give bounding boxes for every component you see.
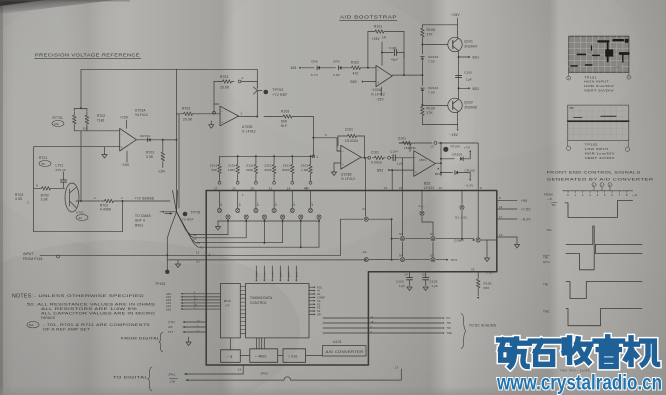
svg-text:17: 17 <box>499 215 503 219</box>
svg-text:.1µF: .1µF <box>431 284 438 288</box>
ground comp side <box>486 240 488 258</box>
svg-text:SR: SR <box>317 314 321 317</box>
svg-text:C105: C105 <box>464 71 472 75</box>
svg-text:B53: B53 <box>377 169 383 173</box>
output BS2 <box>459 87 468 89</box>
svg-text:29: 29 <box>232 186 236 190</box>
svg-text:TR: TR <box>551 203 556 207</box>
svg-text:JPK1: JPK1 <box>168 372 176 376</box>
svg-text:1: 1 <box>242 193 244 197</box>
feedback Z101 15.0334 <box>337 136 339 146</box>
svg-text:14: 14 <box>287 186 291 190</box>
capacitor C105 <box>456 75 462 77</box>
wire +7V sense <box>117 200 170 202</box>
svg-text:R702: R702 <box>97 114 105 118</box>
svg-text:7.0V: 7.0V <box>428 91 435 95</box>
svg-text:GENERATED BY A/D CONVERTER: GENERATED BY A/D CONVERTER <box>547 178 654 182</box>
svg-text:MA: MA <box>55 122 60 126</box>
svg-text:410: 410 <box>353 72 359 76</box>
svg-text:COMP: COMP <box>454 238 464 242</box>
scope photo TP102 frame <box>568 105 629 140</box>
svg-text:R108: R108 <box>427 28 435 32</box>
resistor R108 27K <box>421 26 425 39</box>
svg-text:R702: R702 <box>220 75 228 79</box>
wire POL row <box>370 259 400 261</box>
wire Q101 emitter chain <box>458 52 460 99</box>
svg-text:2A: 2A <box>193 233 197 237</box>
svg-text:5: 5 <box>499 196 501 200</box>
svg-text:—P: —P <box>547 197 552 201</box>
scope photo TP101 graticule <box>574 36 576 72</box>
output BS1 <box>459 56 468 58</box>
svg-text:0.001k: 0.001k <box>371 161 382 165</box>
svg-text:4.445K: 4.445K <box>100 208 112 212</box>
power -15V Q102 <box>422 124 457 126</box>
testpoint TP701 <box>183 212 188 217</box>
svg-text:R101: R101 <box>374 25 382 29</box>
svg-text:CR104: CR104 <box>428 86 438 90</box>
svg-text:TFT: TFT <box>168 330 174 334</box>
svg-text:INPUT: INPUT <box>23 252 34 256</box>
svg-text:+7V SENSE: +7V SENSE <box>135 197 155 201</box>
svg-text:- UNLESS OTHERWISE SPECIFIED: - UNLESS OTHERWISE SPECIFIED <box>34 294 144 298</box>
svg-text:24: 24 <box>405 273 409 277</box>
svg-text:+7.5V: +7.5V <box>521 208 531 212</box>
svg-text:CR701: CR701 <box>140 134 150 138</box>
svg-text:A00: A00 <box>166 307 172 311</box>
svg-text:C104: C104 <box>389 46 397 50</box>
resistor R106 560 <box>477 272 479 277</box>
svg-text:1.0M: 1.0M <box>301 168 309 172</box>
scope TP102 markers <box>567 140 569 146</box>
svg-text:÷ 216: ÷ 216 <box>288 355 297 359</box>
svg-text:.1µF: .1µF <box>398 284 405 288</box>
wire opamp inverting input <box>73 127 75 131</box>
svg-text:½LF412: ½LF412 <box>135 113 148 117</box>
svg-text:20.0K: 20.0K <box>220 86 230 90</box>
ground U103 <box>333 163 335 172</box>
svg-text:17B: 17B <box>170 380 176 384</box>
svg-text:BIT: BIT <box>258 202 260 206</box>
svg-text:2B: 2B <box>193 236 197 240</box>
svg-text:+15V: +15V <box>372 37 381 41</box>
svg-text:3.3K: 3.3K <box>146 155 154 159</box>
svg-text:+7V: +7V <box>464 146 470 150</box>
svg-text:NOTES:: NOTES: <box>12 293 33 299</box>
svg-text:.1µF: .1µF <box>396 162 403 166</box>
svg-text:½ LF412: ½ LF412 <box>341 177 355 181</box>
resistor R702 3.3K vertical <box>162 140 164 150</box>
svg-text:HOn: HOn <box>543 260 550 264</box>
svg-text:ALL CAPACITOR VALUES ARE I: ALL CAPACITOR VALUES ARE IN MICRO <box>41 312 155 316</box>
diode CR103 <box>421 45 423 55</box>
svg-text:HOR 2ms/DIV: HOR 2ms/DIV <box>584 84 614 88</box>
bit lines into timing box <box>255 266 257 280</box>
svg-text:456: 456 <box>291 66 297 70</box>
svg-text:C104: C104 <box>390 150 398 154</box>
svg-text:C103: C103 <box>430 280 438 284</box>
feedback R101 1K <box>367 32 369 69</box>
svg-text:TP101: TP101 <box>584 75 597 79</box>
svg-text:3.3K: 3.3K <box>41 198 49 202</box>
svg-text:2: 2 <box>241 112 243 116</box>
svg-text:S4: S4 <box>399 254 403 258</box>
diode CR104 <box>421 75 423 85</box>
diode CR106 <box>441 172 453 174</box>
svg-text:A2: A2 <box>363 250 367 254</box>
svg-text:21: 21 <box>384 186 388 190</box>
svg-text:BS1: BS1 <box>473 56 480 60</box>
svg-text:400K: 400K <box>264 168 272 172</box>
svg-text:B54: B54 <box>435 172 441 176</box>
svg-text:7.0V: 7.0V <box>428 60 435 64</box>
svg-text:A BIT: A BIT <box>287 270 290 277</box>
svg-text:1µF: 1µF <box>466 78 472 82</box>
svg-text:10: 10 <box>499 233 503 237</box>
svg-text:TP103: TP103 <box>155 282 165 286</box>
svg-text:2N3904: 2N3904 <box>464 45 477 49</box>
watermark logo <box>499 339 530 367</box>
svg-text:VERT 5V/DIV: VERT 5V/DIV <box>584 89 614 93</box>
svg-text:CR105: CR105 <box>452 152 462 156</box>
svg-text:½ LF412: ½ LF412 <box>371 93 385 97</box>
svg-text:Q102: Q102 <box>464 100 473 104</box>
svg-text:30: 30 <box>250 186 254 190</box>
wire IN from ladder <box>365 158 367 216</box>
svg-text:Z101: Z101 <box>371 151 379 155</box>
svg-text:10: 10 <box>430 145 434 149</box>
svg-text:B52: B52 <box>424 182 431 186</box>
notes matched set <box>27 322 39 328</box>
svg-text:Z101: Z101 <box>228 164 236 168</box>
wire R105 to ladder pin <box>295 116 314 118</box>
svg-text:TRE: TRE <box>447 332 453 335</box>
svg-text:CR106: CR106 <box>465 169 475 173</box>
svg-text:Z101: Z101 <box>265 164 273 168</box>
svg-text:−15V: −15V <box>376 97 385 101</box>
svg-text:−15V: −15V <box>449 133 458 137</box>
svg-text:BIT: BIT <box>221 202 223 206</box>
node output U702A <box>162 139 164 141</box>
wire pin21 column <box>391 170 393 190</box>
svg-text:7L: 7L <box>200 246 204 250</box>
svg-text:TP702: TP702 <box>272 88 283 92</box>
transfer gates array <box>219 191 221 209</box>
svg-text:Z101: Z101 <box>301 164 309 168</box>
svg-text:2: 2 <box>27 201 29 205</box>
resistor Z101 0.001k <box>368 156 371 159</box>
svg-text:CR103: CR103 <box>428 55 438 59</box>
svg-text:U702A: U702A <box>135 109 146 113</box>
svg-text:BIT: BIT <box>312 202 314 206</box>
timing control outputs <box>309 286 314 288</box>
wire U702A out to bus <box>163 139 177 141</box>
resistor RT701 <box>73 112 77 127</box>
svg-text:BUS: BUS <box>224 299 231 303</box>
svg-text:(1): (1) <box>196 260 200 264</box>
wire noninv input U702A <box>34 146 120 148</box>
svg-text:31: 31 <box>269 186 273 190</box>
svg-text:POL: POL <box>451 258 458 262</box>
svg-text:−: − <box>377 69 379 73</box>
svg-text:A/D CONVERTER: A/D CONVERTER <box>326 350 365 354</box>
ground lower left <box>188 337 190 342</box>
resistor ladder Z101 bus <box>220 155 314 157</box>
svg-text:Q101: Q101 <box>464 40 473 44</box>
svg-text:+5V: +5V <box>521 199 528 203</box>
svg-text:TRI: TRI <box>543 255 548 259</box>
scope photo TP102 trace <box>568 108 629 121</box>
wire A2 line <box>166 255 168 260</box>
svg-text:+: + <box>415 170 417 174</box>
svg-text:−15V: −15V <box>157 170 166 174</box>
svg-text:+: + <box>342 163 344 167</box>
svg-text:TRI: TRI <box>447 322 452 325</box>
wire COMP column <box>477 143 479 238</box>
scope photo TP102 graticule <box>573 105 575 140</box>
svg-text:+: + <box>377 81 379 85</box>
svg-text:16: 16 <box>499 205 503 209</box>
svg-text:BIT: BIT <box>294 202 296 206</box>
wire U102A output <box>392 74 422 76</box>
svg-text:TRI: TRI <box>543 282 548 286</box>
svg-text:50K: 50K <box>212 168 218 172</box>
diode CR105 <box>441 158 454 160</box>
svg-text:V BIT: V BIT <box>272 270 274 277</box>
svg-text:JPK2: JPK2 <box>260 372 268 376</box>
svg-text:20.0K: 20.0K <box>183 118 193 122</box>
svg-text:PRECISION VOLTAGE REFERENCE: PRECISION VOLTAGE REFERENCE <box>35 53 140 58</box>
testpoint TP103 <box>165 270 169 274</box>
svg-text:TP701: TP701 <box>191 211 201 215</box>
divider wires <box>240 355 250 357</box>
svg-text:R106: R106 <box>484 282 492 286</box>
wire base bus <box>80 131 82 201</box>
svg-text:−: − <box>221 109 223 113</box>
lines to DC scaling <box>323 317 442 319</box>
svg-text:100K: 100K <box>228 168 236 172</box>
svg-text:50: 50 <box>42 162 46 166</box>
wire to U103 input <box>313 137 337 139</box>
svg-text:A/D BOOTSTRAP: A/D BOOTSTRAP <box>340 15 397 20</box>
svg-text:TP102: TP102 <box>585 143 598 147</box>
timing to divider bundle <box>256 338 258 349</box>
svg-text:6: 6 <box>480 186 482 190</box>
ground gates bus <box>215 227 220 231</box>
svg-text:14: 14 <box>439 186 443 190</box>
svg-text:3: 3 <box>121 196 123 200</box>
svg-text:1 BIT: 1 BIT <box>264 270 266 277</box>
op-amp U102A <box>376 65 392 86</box>
svg-text:Z101: Z101 <box>345 128 353 132</box>
svg-text:TRI: TRI <box>447 327 452 330</box>
svg-text:50: ALL RESISTANCE VALUES: 50: ALL RESISTANCE VALUES ARE IN OHMS <box>27 303 156 307</box>
resistor R102 410 <box>350 66 363 70</box>
svg-text:—%: —% <box>632 193 638 197</box>
node B52 output <box>435 162 441 164</box>
scope photo TP101 traces <box>571 39 628 66</box>
svg-text:+7V REF: +7V REF <box>180 218 194 222</box>
svg-text:R703: R703 <box>182 107 190 111</box>
testpoint TP702 <box>264 90 269 95</box>
svg-text:270 pF: 270 pF <box>56 168 67 172</box>
svg-text:1: 1 <box>317 155 319 159</box>
svg-text:R105: R105 <box>281 109 289 113</box>
svg-text:CONTROL: CONTROL <box>250 301 267 305</box>
svg-text:HOR 1ms/DIV: HOR 1ms/DIV <box>585 151 615 155</box>
wire comp row <box>391 219 393 260</box>
capacitor C104 <box>391 157 394 159</box>
gate drive wires <box>227 221 229 235</box>
wire vertical ref bus <box>176 69 178 212</box>
svg-text:−8.2V: −8.2V <box>521 218 531 222</box>
svg-text:PG: PG <box>547 228 552 232</box>
svg-text:4: 4 <box>242 76 244 80</box>
svg-text:TO DIGITAL: TO DIGITAL <box>113 376 148 380</box>
svg-text:R109: R109 <box>427 107 435 111</box>
svg-text:TP104: TP104 <box>450 145 460 149</box>
wire resistor pair top <box>74 108 87 110</box>
op-amp B52 <box>414 151 436 177</box>
svg-text:560: 560 <box>484 286 490 290</box>
svg-text:2 BIT: 2 BIT <box>256 270 258 277</box>
timing circled nodes <box>592 183 596 187</box>
svg-text:71k6: 71k6 <box>97 119 105 123</box>
svg-text:TO CMAS: TO CMAS <box>135 214 151 218</box>
svg-text:Z101: Z101 <box>210 164 218 168</box>
svg-text:27K: 27K <box>427 111 434 115</box>
svg-text:15.0334: 15.0334 <box>345 139 358 143</box>
transistor Q701 oval <box>65 183 79 212</box>
divider by 4800 box <box>250 349 278 363</box>
svg-text:R701: R701 <box>39 156 47 160</box>
svg-text:Z101: Z101 <box>283 164 291 168</box>
svg-text:50: 50 <box>79 216 83 220</box>
svg-text:R601: R601 <box>135 223 143 227</box>
svg-text:M.F.: M.F. <box>281 124 288 128</box>
svg-text:24: 24 <box>304 186 308 190</box>
svg-text:1K: 1K <box>382 36 387 40</box>
scope TP101 markers <box>568 72 570 76</box>
svg-text:+15V: +15V <box>451 13 460 17</box>
wire U702B output <box>239 116 258 118</box>
svg-text:27K: 27K <box>427 33 434 37</box>
testpoint TP104 <box>443 147 448 152</box>
svg-text:A BIT: A BIT <box>295 270 298 277</box>
svg-text:−102A: −102A <box>371 88 382 92</box>
transistor Q102 <box>448 98 462 112</box>
svg-text:CR9: CR9 <box>333 60 340 64</box>
svg-text:RT701: RT701 <box>53 116 64 120</box>
svg-text:I/F: I/F <box>226 304 230 308</box>
svg-text:÷ 8: ÷ 8 <box>227 355 232 359</box>
svg-text:U702B: U702B <box>242 125 253 129</box>
svg-text:20: 20 <box>399 186 403 190</box>
svg-text:8.0: 8.0 <box>83 126 88 130</box>
resistor R105 50K MF <box>281 115 295 119</box>
svg-text:−: − <box>415 156 417 160</box>
transistor Q101 <box>448 37 462 51</box>
wire IN step <box>340 219 342 255</box>
A/D converter U101 outline <box>206 191 497 366</box>
gates common bus <box>218 220 319 222</box>
svg-text:- 701, R701 & R711 ARE CO: - 701, R701 & R711 ARE COMPONENTS <box>43 323 151 327</box>
svg-text:TIMING/DATA: TIMING/DATA <box>250 296 273 300</box>
svg-text:12: 12 <box>196 251 200 255</box>
svg-text:VERT 4V/DIV: VERT 4V/DIV <box>585 156 615 160</box>
svg-text:TO DC SCALING: TO DC SCALING <box>469 324 497 328</box>
svg-text:FROM P315: FROM P315 <box>23 257 43 261</box>
bus hatch wires <box>240 286 245 288</box>
divider by 216 box <box>283 349 306 363</box>
svg-text:LOW INPUT: LOW INPUT <box>585 147 609 151</box>
svg-text:FARADS: FARADS <box>41 316 56 320</box>
diode CR701 <box>136 139 176 141</box>
svg-text:U101: U101 <box>333 340 342 344</box>
svg-text:1503: 1503 <box>419 158 426 162</box>
svg-text:−: − <box>342 150 344 154</box>
ladder pin 1 <box>312 155 315 158</box>
svg-text:R102: R102 <box>351 61 359 65</box>
svg-text:1.2.8: 1.2.8 <box>614 67 620 69</box>
svg-text:BS2: BS2 <box>473 87 480 91</box>
wire emitter to sense <box>76 200 100 202</box>
svg-text:5: 5 <box>325 133 327 137</box>
svg-text:FRONT END CONTROL SIGNALS: FRONT END CONTROL SIGNALS <box>547 171 642 175</box>
svg-text:42µF: 42µF <box>391 58 398 62</box>
svg-text:A.L.: A.L. <box>419 204 425 208</box>
svg-text:Z101: Z101 <box>398 137 406 141</box>
svg-text:CR8: CR8 <box>311 60 318 64</box>
svg-text:Z101: Z101 <box>246 164 254 168</box>
svg-text:2 Z87: 2 Z87 <box>486 271 494 275</box>
time ruler <box>563 190 633 192</box>
resistor R702 20.0K feedback <box>213 104 215 114</box>
svg-text:33: 33 <box>471 267 475 271</box>
svg-text:HIGH INPUT: HIGH INPUT <box>584 80 609 84</box>
svg-text:−2.2V: −2.2V <box>465 183 474 187</box>
svg-text:ALL RESISTORS ARE 1/4W 5%: ALL RESISTORS ARE 1/4W 5% <box>41 307 137 311</box>
resistor R702 71k6 <box>85 112 89 127</box>
node U103 out <box>364 157 366 159</box>
svg-text:PG: PG <box>447 317 451 320</box>
svg-text:½ LF412: ½ LF412 <box>242 130 256 134</box>
svg-text:U701: U701 <box>76 211 84 215</box>
svg-text:13: 13 <box>395 366 399 370</box>
divider by 8 box <box>221 350 241 363</box>
junction TP702 wye <box>256 82 258 89</box>
wire U103 minus <box>337 150 341 152</box>
svg-text:www.crystalradio.cn: www.crystalradio.cn <box>496 371 662 395</box>
diode CR103 symbol <box>421 57 425 59</box>
resistor R702 3.3K left <box>40 187 53 191</box>
svg-text:TRE: TRE <box>543 309 550 313</box>
svg-text:S1: S1 <box>430 232 434 236</box>
svg-text:14: 14 <box>238 368 242 372</box>
svg-text:+15V: +15V <box>120 116 129 120</box>
op-amp U103 <box>341 145 361 169</box>
svg-text:A BIT: A BIT <box>279 270 282 277</box>
svg-text:C102: C102 <box>396 280 404 284</box>
svg-text:159.93k: 159.93k <box>404 146 416 150</box>
svg-text:OF A REF AMP SET: OF A REF AMP SET <box>43 328 90 332</box>
svg-text:5.7V: 5.7V <box>311 73 318 77</box>
svg-text:÷ 4800: ÷ 4800 <box>255 355 267 359</box>
op-amp U702B <box>220 106 239 126</box>
svg-text:3.0V: 3.0V <box>333 73 340 77</box>
ground U702B plus <box>210 121 212 125</box>
svg-text:J02: J02 <box>168 325 173 329</box>
